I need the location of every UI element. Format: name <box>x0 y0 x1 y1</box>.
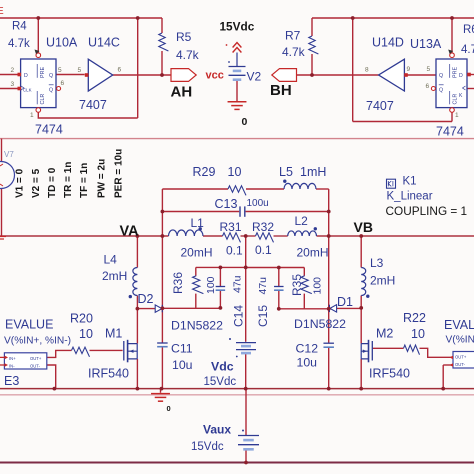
svg-text:OUT+: OUT+ <box>455 355 467 360</box>
svg-text:V(%IN: V(%IN <box>446 335 474 346</box>
svg-text:1: 1 <box>30 112 34 119</box>
svg-text:E3: E3 <box>4 374 19 388</box>
svg-text:15Vdc: 15Vdc <box>204 376 237 388</box>
svg-text:VB: VB <box>354 219 373 235</box>
svg-text:TD = 0: TD = 0 <box>47 167 58 198</box>
svg-text:R5: R5 <box>176 30 192 44</box>
svg-text:D: D <box>24 73 28 79</box>
svg-text:R22: R22 <box>403 311 426 325</box>
svg-text:3: 3 <box>11 81 15 88</box>
svg-text:10u: 10u <box>297 356 318 370</box>
svg-text:R36: R36 <box>171 272 185 294</box>
svg-text:TR = 1n: TR = 1n <box>63 162 74 198</box>
svg-text:100: 100 <box>312 277 324 295</box>
svg-text:15Vdc: 15Vdc <box>191 441 224 453</box>
svg-text:20mH: 20mH <box>181 246 213 260</box>
svg-text:Q: Q <box>439 73 443 79</box>
svg-text:5: 5 <box>78 67 82 74</box>
svg-text:L5: L5 <box>279 165 293 179</box>
svg-text:2mH: 2mH <box>102 269 127 283</box>
svg-text:2: 2 <box>11 67 15 74</box>
svg-text:7474: 7474 <box>436 125 464 139</box>
svg-text:PER = 10u: PER = 10u <box>114 149 125 198</box>
svg-text:Vdc: Vdc <box>211 360 234 374</box>
svg-text:47u: 47u <box>232 275 244 293</box>
svg-text:IRF540: IRF540 <box>88 367 129 381</box>
svg-text:PRE: PRE <box>40 67 46 78</box>
svg-text:V(%IN+, %IN-): V(%IN+, %IN-) <box>4 336 71 347</box>
svg-text:OUT+: OUT+ <box>30 356 42 361</box>
svg-text:U14D: U14D <box>372 36 404 50</box>
svg-text:M2: M2 <box>376 327 393 341</box>
svg-text:5: 5 <box>427 66 431 73</box>
svg-text:5: 5 <box>58 67 62 74</box>
svg-text:R4: R4 <box>12 21 27 33</box>
svg-text:4.7k: 4.7k <box>176 48 200 62</box>
svg-text:0.1: 0.1 <box>255 243 272 257</box>
svg-text:M1: M1 <box>105 327 122 341</box>
svg-text:100u: 100u <box>247 198 269 209</box>
svg-text:10: 10 <box>411 327 425 341</box>
svg-text:0.1: 0.1 <box>226 244 243 258</box>
svg-text:K1: K1 <box>403 176 417 188</box>
svg-text:D1: D1 <box>337 295 353 309</box>
svg-text:V2 = 5: V2 = 5 <box>31 168 42 198</box>
svg-text:EVALUE: EVALUE <box>5 318 53 332</box>
svg-text:V2: V2 <box>247 70 262 84</box>
svg-text:100: 100 <box>205 276 217 294</box>
svg-text:4.7k: 4.7k <box>282 45 306 59</box>
svg-text:EVALUE: EVALUE <box>444 318 474 332</box>
svg-text:R32: R32 <box>252 220 274 234</box>
svg-text:4.7k: 4.7k <box>8 38 30 50</box>
svg-text:1: 1 <box>455 112 459 119</box>
svg-text:Q: Q <box>439 88 443 94</box>
svg-text:C15: C15 <box>256 305 270 327</box>
svg-text:CLR: CLR <box>453 94 459 105</box>
svg-text:COUPLING = 1: COUPLING = 1 <box>386 204 468 218</box>
svg-text:6: 6 <box>426 83 430 90</box>
svg-text:7407: 7407 <box>79 98 107 112</box>
svg-text:IN+: IN+ <box>9 356 16 361</box>
svg-text:vcc: vcc <box>206 70 224 82</box>
svg-text:9: 9 <box>407 66 411 73</box>
svg-text:47u: 47u <box>257 277 269 295</box>
svg-text:OUT-: OUT- <box>30 363 41 368</box>
svg-text:Q: Q <box>49 88 53 94</box>
svg-text:R20: R20 <box>70 312 93 326</box>
svg-text:R29: R29 <box>193 165 216 179</box>
svg-text:2mH: 2mH <box>370 274 395 288</box>
svg-text:6: 6 <box>61 80 65 87</box>
svg-text:CLR: CLR <box>40 94 46 105</box>
svg-text:BH: BH <box>270 82 292 99</box>
svg-text:1mH: 1mH <box>300 165 326 179</box>
svg-text:IRF540: IRF540 <box>369 367 410 381</box>
svg-text:20mH: 20mH <box>297 246 329 260</box>
svg-text:C12: C12 <box>296 342 319 356</box>
svg-text:E: E <box>0 6 4 17</box>
svg-text:IN-: IN- <box>9 363 15 368</box>
svg-text:VA: VA <box>120 224 140 240</box>
svg-text:OUT-: OUT- <box>455 362 466 367</box>
svg-text:R31: R31 <box>220 220 242 234</box>
svg-text:K_Linear: K_Linear <box>387 191 433 203</box>
svg-text:7474: 7474 <box>35 123 63 137</box>
svg-text:D: D <box>459 73 463 79</box>
svg-text:Q: Q <box>49 73 53 79</box>
svg-text:R7: R7 <box>285 29 301 43</box>
svg-text:C13: C13 <box>215 197 238 211</box>
svg-text:U13A: U13A <box>410 37 442 51</box>
svg-text:L4: L4 <box>104 253 118 267</box>
svg-text:0: 0 <box>167 404 171 413</box>
svg-text:C11: C11 <box>171 342 193 356</box>
svg-text:PRE: PRE <box>453 67 459 78</box>
svg-text:C14: C14 <box>232 305 246 327</box>
svg-text:R6: R6 <box>463 24 474 36</box>
svg-text:8: 8 <box>365 67 369 74</box>
svg-text:D1N5822: D1N5822 <box>171 319 223 333</box>
svg-text:6: 6 <box>118 67 122 74</box>
svg-text:U14C: U14C <box>88 36 120 50</box>
svg-text:L2: L2 <box>295 214 309 228</box>
svg-text:V7: V7 <box>4 150 14 159</box>
svg-text:L1: L1 <box>191 216 205 230</box>
svg-text:4.7k: 4.7k <box>461 44 474 56</box>
svg-text:7407: 7407 <box>366 99 394 113</box>
svg-text:CLK: CLK <box>23 88 32 93</box>
svg-text:PW = 2u: PW = 2u <box>97 159 108 198</box>
svg-text:10: 10 <box>79 327 93 341</box>
svg-text:L3: L3 <box>370 256 384 270</box>
svg-text:Vaux: Vaux <box>203 423 231 437</box>
svg-text:D1N5822: D1N5822 <box>294 317 346 331</box>
svg-text:10u: 10u <box>172 358 193 372</box>
svg-text:R35: R35 <box>290 274 304 296</box>
svg-text:U10A: U10A <box>46 36 78 50</box>
svg-text:15Vdc: 15Vdc <box>220 20 255 34</box>
svg-text:V1 = 0: V1 = 0 <box>15 168 26 198</box>
svg-text:0: 0 <box>242 116 248 128</box>
svg-text:TF = 1n: TF = 1n <box>79 163 90 198</box>
svg-text:10: 10 <box>228 165 242 179</box>
svg-text:AH: AH <box>171 84 193 101</box>
svg-text:D2: D2 <box>138 292 154 306</box>
